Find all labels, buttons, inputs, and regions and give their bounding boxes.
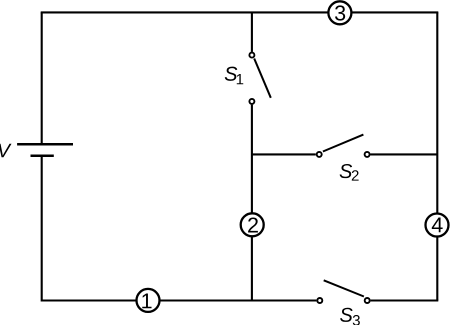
- wire: [251, 12, 253, 52]
- lamp 1: [137, 289, 160, 312]
- wire: [41, 156, 43, 302]
- switch S3: [317, 280, 369, 325]
- lamp 2: [241, 213, 264, 236]
- wire: [41, 11, 439, 13]
- wire: [436, 12, 438, 300]
- switch S2: [317, 135, 370, 181]
- switch S1: [225, 53, 271, 104]
- wire: [252, 153, 316, 155]
- battery V: [0, 144, 73, 157]
- wire: [251, 105, 253, 301]
- wire: [41, 12, 43, 144]
- wire: [371, 299, 439, 301]
- wire: [370, 153, 437, 155]
- lamp 4: [426, 214, 449, 237]
- lamp 3: [328, 1, 351, 24]
- wire: [42, 299, 317, 301]
